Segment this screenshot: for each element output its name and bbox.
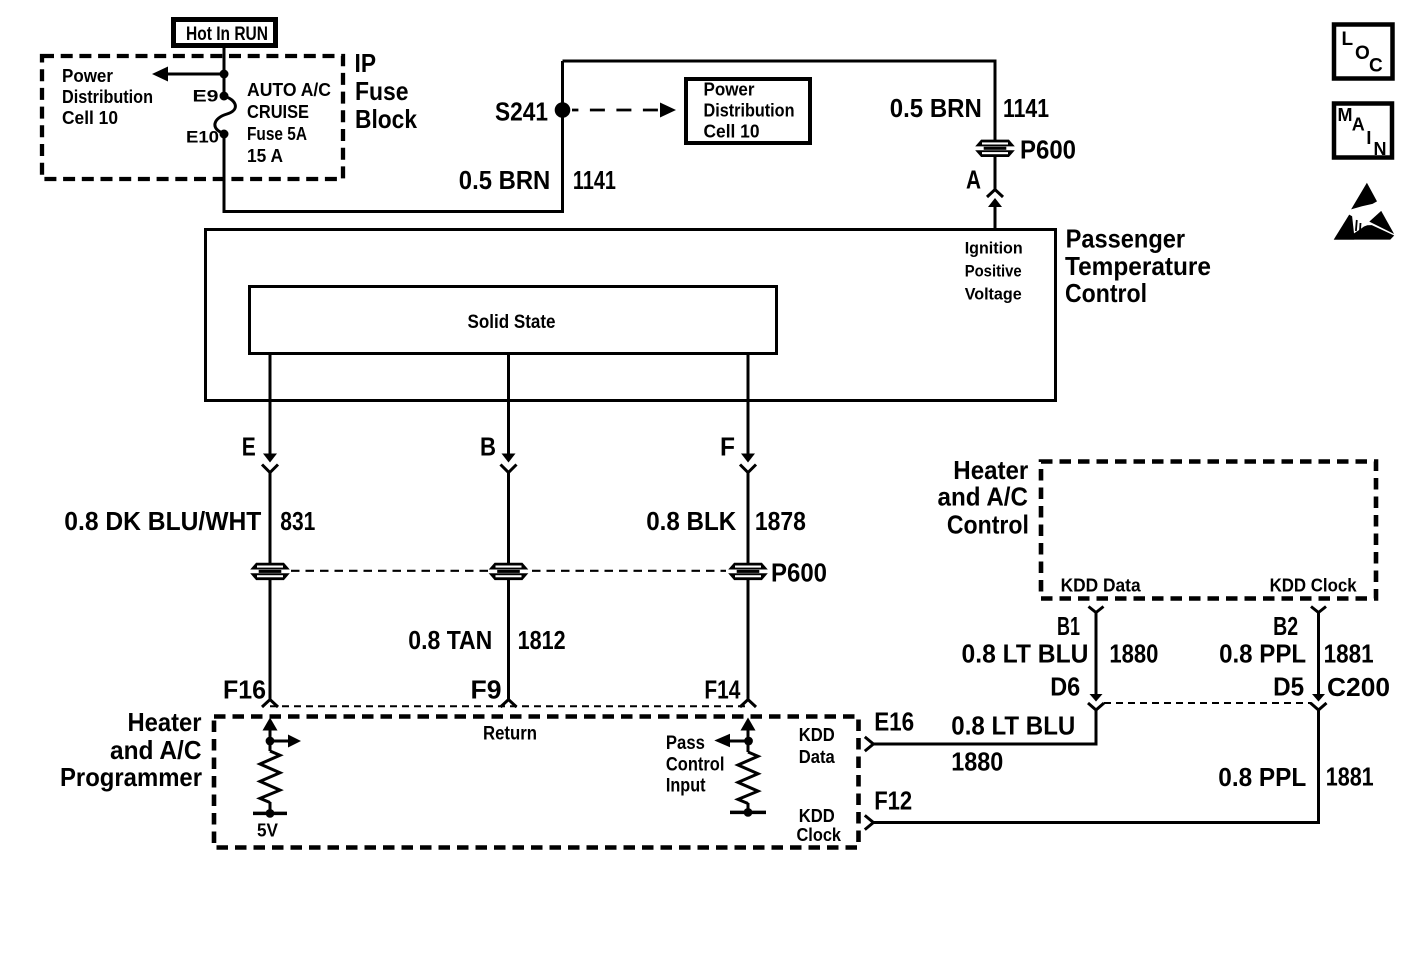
svg-text:831: 831 [280, 506, 315, 536]
inline connector P600 row (F) [728, 563, 768, 580]
svg-text:0.8 DK BLU/WHT: 0.8 DK BLU/WHT [64, 506, 261, 536]
svg-text:15 A: 15 A [247, 145, 283, 166]
5V supply node [253, 802, 287, 841]
connector C200 dashed line [1104, 702, 1311, 704]
svg-text:I: I [1366, 128, 1371, 148]
svg-text:0.8 LT BLU: 0.8 LT BLU [962, 639, 1089, 669]
wire pin B [501, 355, 517, 563]
wire E16 to D6 [873, 710, 1096, 744]
svg-text:E9: E9 [193, 87, 219, 106]
svg-text:Positive: Positive [965, 263, 1022, 281]
svg-text:P600: P600 [771, 558, 827, 588]
svg-text:B1: B1 [1057, 611, 1080, 641]
inline connector P600 row (E) [250, 563, 290, 580]
svg-text:0.8 LT BLU: 0.8 LT BLU [951, 711, 1075, 741]
Heater and A/C Programmer label [60, 707, 202, 792]
wire F to F14 [747, 580, 750, 700]
wire B2 to D5 [1317, 613, 1320, 696]
wire E10 to S241 riser [224, 61, 563, 212]
svg-text:KDD Data: KDD Data [1061, 575, 1142, 596]
KDD Clock label (programmer) [797, 805, 842, 845]
dashed reference arrow to Power Distribution Cell 10 [572, 103, 676, 118]
inline connector P600 row (B) [489, 563, 529, 580]
connector pair at D5 [1311, 694, 1327, 710]
svg-text:1141: 1141 [1003, 93, 1049, 123]
svg-text:1812: 1812 [518, 625, 566, 655]
svg-text:B2: B2 [1273, 611, 1298, 641]
pin B2 chevron [1311, 607, 1326, 613]
LOC reference box [1334, 25, 1393, 79]
fuse AUTO A/C CRUISE 15A [215, 96, 235, 134]
label 0.8 DK BLU/WHT 831 [64, 506, 315, 536]
connector pair at D6 [1088, 694, 1104, 710]
svg-text:Distribution: Distribution [704, 100, 795, 121]
junction dot [266, 737, 275, 746]
svg-text:Passenger: Passenger [1066, 224, 1186, 254]
svg-text:C: C [1369, 56, 1383, 77]
svg-text:KDD Clock: KDD Clock [1270, 575, 1358, 596]
svg-text:Control: Control [947, 510, 1029, 540]
svg-text:CRUISE: CRUISE [247, 101, 309, 122]
IP Fuse Block label [355, 48, 418, 134]
svg-text:A: A [1352, 114, 1365, 134]
svg-text:B: B [480, 431, 496, 461]
chevron at F14 [740, 700, 756, 708]
svg-text:S241: S241 [495, 97, 548, 127]
splice S241 [495, 97, 570, 127]
svg-text:KDD: KDD [799, 724, 835, 745]
solid state device box [250, 287, 777, 354]
svg-text:Pass: Pass [666, 733, 705, 754]
svg-text:D5: D5 [1273, 672, 1304, 702]
svg-text:Heater: Heater [128, 707, 202, 737]
connector pair at pin A [987, 157, 1003, 229]
power label box Hot In RUN [174, 20, 276, 46]
arrow into box at F14 [741, 718, 756, 753]
svg-text:1881: 1881 [1326, 762, 1374, 792]
svg-text:1881: 1881 [1324, 639, 1374, 669]
svg-text:F12: F12 [874, 786, 912, 816]
svg-text:Input: Input [666, 776, 706, 797]
wire Hot In RUN to E9 [223, 48, 226, 96]
ESD sensitive device symbol [1334, 183, 1395, 240]
resistor (5V pull-up) [260, 751, 280, 803]
wire S241 to P600 [563, 61, 996, 140]
ground node [730, 803, 766, 817]
svg-text:C200: C200 [1327, 672, 1390, 702]
svg-text:E16: E16 [874, 707, 914, 737]
svg-text:Cell 10: Cell 10 [704, 121, 760, 142]
wire pin E [262, 355, 278, 563]
arrow into box at F16 [263, 718, 278, 752]
svg-text:Control: Control [666, 755, 725, 776]
svg-text:E10: E10 [186, 128, 219, 147]
svg-text:Fuse: Fuse [355, 76, 409, 106]
svg-text:D6: D6 [1050, 672, 1080, 702]
svg-text:P600: P600 [1020, 135, 1076, 165]
wire B to F9 [507, 580, 510, 700]
svg-text:F9: F9 [471, 675, 502, 705]
svg-text:1880: 1880 [1109, 639, 1158, 669]
svg-text:Hot In RUN: Hot In RUN [186, 24, 268, 45]
svg-text:Power: Power [62, 65, 113, 86]
terminal E10 [186, 128, 229, 147]
svg-text:F14: F14 [704, 675, 740, 705]
MAIN reference box [1334, 104, 1392, 160]
svg-text:O: O [1355, 43, 1370, 64]
svg-text:Voltage: Voltage [965, 286, 1022, 304]
arrow right (voltage direction) [270, 735, 301, 748]
svg-text:and A/C: and A/C [110, 735, 202, 765]
terminal E9 [193, 87, 229, 106]
svg-text:A: A [966, 165, 981, 195]
dashed connector tie line [291, 570, 726, 572]
svg-text:0.5 BRN: 0.5 BRN [459, 165, 551, 195]
svg-text:Return: Return [483, 724, 537, 745]
svg-text:N: N [1374, 139, 1387, 159]
svg-text:0.8 PPL: 0.8 PPL [1218, 762, 1306, 792]
svg-text:Control: Control [1065, 278, 1147, 308]
svg-text:Ignition: Ignition [965, 240, 1023, 258]
svg-text:0.5 BRN: 0.5 BRN [890, 93, 982, 123]
wire B1 to D6 [1095, 613, 1098, 696]
inline connector P600 (top) [975, 140, 1015, 157]
svg-text:Clock: Clock [797, 824, 842, 845]
svg-text:1878: 1878 [755, 506, 806, 536]
svg-text:1880: 1880 [951, 746, 1003, 776]
Heater and A/C Control dashed box [1041, 462, 1376, 599]
svg-text:Temperature: Temperature [1065, 251, 1211, 281]
svg-text:F16: F16 [223, 675, 266, 705]
Power Distribution Cell 10 label (fuse block) [62, 65, 153, 128]
KDD Data label (programmer) [799, 724, 836, 767]
arrow left (Pass Control Input) [714, 734, 748, 748]
pin E16 chevron [865, 737, 874, 751]
resistor (pass control) [738, 752, 758, 804]
svg-text:M: M [1338, 105, 1353, 125]
svg-text:0.8 BLK: 0.8 BLK [646, 506, 736, 536]
fuse value label [247, 79, 331, 166]
svg-text:5V: 5V [257, 820, 279, 841]
connector face dashed line F16-F14 [270, 705, 748, 707]
svg-text:KDD: KDD [799, 805, 835, 826]
Passenger Temperature Control label [1065, 224, 1211, 309]
svg-text:Heater: Heater [953, 455, 1028, 485]
svg-text:E: E [242, 431, 256, 461]
Heater and A/C Programmer dashed box [214, 717, 859, 848]
Heater and A/C Control label [938, 455, 1029, 540]
pin B1 chevron [1089, 607, 1104, 613]
svg-text:0.8 TAN: 0.8 TAN [408, 625, 492, 655]
svg-text:L: L [1342, 29, 1354, 50]
label 0.8 TAN 1812 [408, 625, 565, 655]
svg-text:Power: Power [704, 79, 755, 100]
pin F12 chevron [865, 815, 874, 829]
svg-text:Programmer: Programmer [60, 762, 202, 792]
Ignition Positive Voltage label [965, 240, 1023, 304]
svg-text:F: F [720, 431, 735, 461]
svg-text:Distribution: Distribution [62, 86, 153, 107]
wire E to F16 [269, 580, 272, 700]
power label box Power Distribution Cell 10 [686, 79, 810, 144]
svg-text:IP: IP [355, 48, 377, 78]
Pass Control Input label [666, 733, 725, 797]
svg-text:Data: Data [799, 746, 836, 767]
chevron at F9 [501, 700, 517, 708]
control module box Passenger Temperature Control [206, 230, 1056, 401]
wire pin F [740, 355, 756, 563]
IP fuse block dashed box [42, 56, 343, 179]
junction dot [744, 737, 753, 746]
chevron at F16 [262, 700, 278, 708]
svg-text:Block: Block [355, 104, 417, 134]
svg-text:Cell 10: Cell 10 [62, 107, 118, 128]
svg-text:0.8 PPL: 0.8 PPL [1219, 639, 1306, 669]
label 0.8 BLK 1878 [646, 506, 806, 536]
svg-text:Solid State: Solid State [468, 312, 556, 333]
wire F12 to D5 [873, 710, 1318, 823]
label 0.5 BRN 1141 (upper) [890, 93, 1049, 123]
junction dot [220, 70, 229, 79]
svg-text:AUTO A/C: AUTO A/C [247, 79, 331, 100]
arrow to Power Distribution (left) [152, 67, 224, 82]
svg-text:and A/C: and A/C [938, 482, 1029, 512]
label 0.5 BRN 1141 (lower) [459, 165, 616, 195]
svg-text:1141: 1141 [573, 165, 616, 195]
svg-text:Fuse 5A: Fuse 5A [247, 123, 307, 144]
